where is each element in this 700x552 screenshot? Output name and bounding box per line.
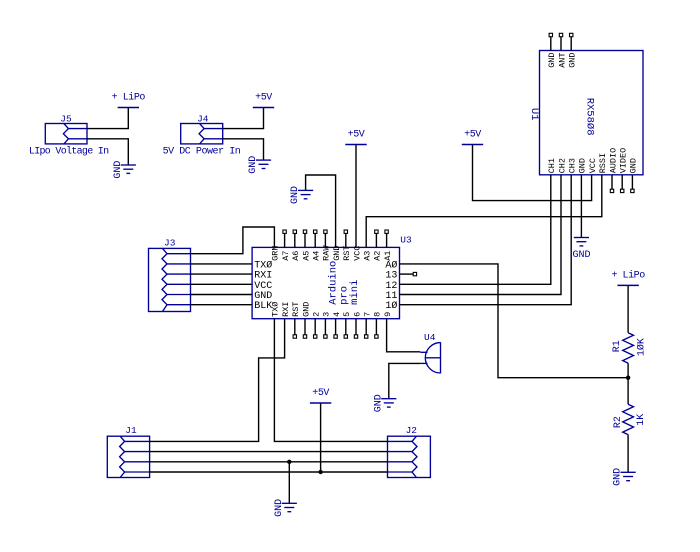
resistor R1 xyxy=(612,333,647,363)
wire J3-3 to RXI xyxy=(191,273,253,275)
wire RSSI to U3 A3 xyxy=(366,175,602,248)
wire CH2 to U3 pin11 xyxy=(400,175,562,295)
wire U4 to GND xyxy=(389,363,421,398)
svg-text:VCC: VCC xyxy=(352,245,362,260)
svg-text:CH1: CH1 xyxy=(547,158,557,173)
power +5V xyxy=(310,388,331,403)
svg-text:GND: GND xyxy=(629,158,639,173)
svg-text:GND: GND xyxy=(613,468,624,486)
U3 unconnected bottom pins xyxy=(293,319,378,338)
power +5V xyxy=(462,130,483,145)
svg-text:+5V: +5V xyxy=(464,130,481,141)
svg-text:+5V: +5V xyxy=(312,388,329,399)
wire CH1 to U3 pin12 xyxy=(400,175,551,284)
svg-text:R2: R2 xyxy=(613,416,624,428)
svg-text:GND: GND xyxy=(290,186,301,204)
svg-text:GND: GND xyxy=(274,499,285,517)
U3 pin 13 stub xyxy=(400,272,417,275)
svg-text:2: 2 xyxy=(312,312,322,317)
svg-text:mini: mini xyxy=(349,280,361,305)
svg-text:RAW: RAW xyxy=(322,245,332,261)
svg-text:GRN: GRN xyxy=(271,245,281,260)
wire U3 TX0 to J2-1 xyxy=(274,319,387,442)
node junction xyxy=(318,470,322,474)
svg-text:A4: A4 xyxy=(312,251,322,261)
ground xyxy=(113,161,136,179)
wire bus to GND xyxy=(288,462,290,504)
power +LiPo xyxy=(611,269,645,285)
svg-text:VCC: VCC xyxy=(588,158,598,173)
svg-text:GND: GND xyxy=(547,52,557,67)
wire U3 RXI to J1-1 xyxy=(150,319,285,442)
ground xyxy=(373,394,396,412)
wire J4-1 to +5V xyxy=(223,108,264,129)
wire +LiPo to R1 xyxy=(627,285,629,332)
wire J3-2 to TX0 xyxy=(191,263,253,265)
ground xyxy=(573,238,591,261)
svg-text:GND: GND xyxy=(301,302,311,317)
svg-text:RXI: RXI xyxy=(281,302,291,317)
wire J1-3 to J2-3 xyxy=(150,461,388,463)
wire bus to +5V xyxy=(320,403,322,472)
wire +5V to U3 VCC xyxy=(355,145,357,248)
svg-text:J3: J3 xyxy=(164,238,176,249)
svg-text:J1: J1 xyxy=(125,425,137,436)
connector J2 xyxy=(388,425,431,478)
wire J3-4 to VCC xyxy=(191,283,253,285)
wire U3 A0 to divider xyxy=(400,264,629,378)
wire U1 GND to ground xyxy=(580,175,582,238)
svg-text:AUDIO: AUDIO xyxy=(608,148,618,174)
svg-text:A1: A1 xyxy=(383,251,393,261)
wire U3 pin9 to U4 xyxy=(387,319,421,352)
svg-text:LIpo Voltage In: LIpo Voltage In xyxy=(29,146,109,158)
svg-text:GND: GND xyxy=(573,250,591,261)
svg-text:RX58Ø8: RX58Ø8 xyxy=(583,98,595,136)
wire U3 GND pin to ground xyxy=(306,175,336,247)
svg-text:A2: A2 xyxy=(373,251,383,261)
svg-text:A5: A5 xyxy=(301,251,311,261)
wire J1-2 to J2-2 xyxy=(150,451,388,453)
svg-text:+5V: +5V xyxy=(348,130,365,141)
node divider junction xyxy=(626,376,630,380)
wire J5-2 to GND xyxy=(87,139,128,165)
svg-text:RSSI: RSSI xyxy=(598,153,608,173)
ground xyxy=(248,156,271,174)
wire J3-6 to BLK xyxy=(191,304,253,306)
wire J3-1 to GRN xyxy=(191,227,275,254)
U1 top unconnected pins xyxy=(549,33,573,50)
IC U3 Arduino pro mini xyxy=(252,235,412,319)
svg-text:A6: A6 xyxy=(291,251,301,261)
svg-text:1K: 1K xyxy=(636,414,647,426)
svg-text:J4: J4 xyxy=(197,114,209,125)
ground xyxy=(290,186,313,204)
svg-text:ANT: ANT xyxy=(557,52,567,67)
svg-text:VIDEO: VIDEO xyxy=(619,148,629,174)
svg-text:GND: GND xyxy=(113,161,124,179)
wire J5-1 to +LiPo xyxy=(87,108,128,129)
svg-text:GND: GND xyxy=(578,158,588,173)
svg-text:GND: GND xyxy=(248,156,259,174)
svg-text:GND: GND xyxy=(332,245,342,260)
svg-text:1Ø: 1Ø xyxy=(385,300,397,312)
svg-text:8: 8 xyxy=(373,312,383,317)
connector J5 xyxy=(29,114,109,158)
svg-text:TXØ: TXØ xyxy=(254,259,272,271)
svg-text:5V DC Power In: 5V DC Power In xyxy=(163,147,241,158)
svg-text:A3: A3 xyxy=(363,251,373,261)
power +LiPo xyxy=(112,92,146,108)
svg-text:CH3: CH3 xyxy=(568,158,578,173)
wire CH3 to U3 pin10 xyxy=(400,175,572,305)
svg-text:U4: U4 xyxy=(424,332,436,343)
wire J4-2 to GND xyxy=(223,139,264,160)
U1 bottom unconnected pins xyxy=(610,175,634,193)
svg-text:GND: GND xyxy=(373,394,384,412)
svg-text:J2: J2 xyxy=(406,425,418,436)
svg-text:U1: U1 xyxy=(528,108,540,121)
speaker U4 xyxy=(420,332,440,374)
svg-text:1ØK: 1ØK xyxy=(635,338,647,356)
power +5V xyxy=(253,93,274,108)
connector J1 xyxy=(107,425,149,478)
svg-text:CH2: CH2 xyxy=(557,158,567,173)
svg-text:+5V: +5V xyxy=(255,93,272,104)
ground xyxy=(613,468,636,486)
wire U1 VCC to +5V xyxy=(473,145,592,201)
connector J4 xyxy=(163,114,241,158)
resistor R2 xyxy=(613,404,647,434)
ground xyxy=(274,499,297,517)
svg-text:+ LiPo: + LiPo xyxy=(611,269,645,281)
wire R1 to R2 xyxy=(627,363,629,404)
svg-text:7: 7 xyxy=(363,312,373,317)
svg-text:AØ: AØ xyxy=(385,259,397,271)
IC U1 RX5808 xyxy=(528,51,643,175)
svg-text:4: 4 xyxy=(332,312,342,317)
svg-text:U3: U3 xyxy=(400,235,412,246)
svg-text:+ LiPo: + LiPo xyxy=(112,92,146,104)
svg-text:R1: R1 xyxy=(612,340,623,352)
svg-text:GND: GND xyxy=(568,52,578,67)
power +5V xyxy=(345,130,366,145)
node junction xyxy=(287,460,291,464)
svg-text:3: 3 xyxy=(322,312,332,317)
svg-text:9: 9 xyxy=(383,312,393,317)
svg-text:RST: RST xyxy=(291,302,301,317)
svg-text:RST: RST xyxy=(342,245,352,260)
svg-text:Arduino: Arduino xyxy=(328,261,340,305)
connector J3 xyxy=(149,238,191,312)
svg-text:BLK: BLK xyxy=(254,301,272,312)
svg-text:A7: A7 xyxy=(281,251,291,261)
wire J3-5 to GND xyxy=(191,294,253,296)
svg-text:5: 5 xyxy=(342,312,352,317)
U3 unconnected top pins xyxy=(283,230,388,247)
svg-text:6: 6 xyxy=(352,312,362,317)
wire R2 to GND xyxy=(627,435,629,473)
svg-text:J5: J5 xyxy=(60,114,72,125)
wire J1-4 to J2-4 xyxy=(150,471,388,473)
